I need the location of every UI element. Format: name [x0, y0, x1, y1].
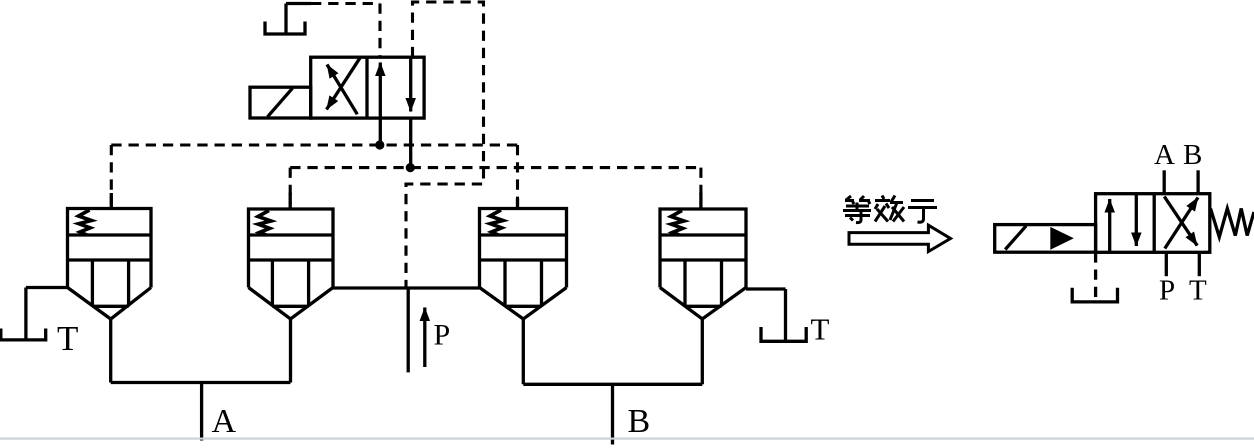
svg-text:B: B: [1183, 139, 1202, 171]
svg-text:A: A: [212, 403, 237, 440]
svg-text:B: B: [628, 403, 651, 440]
svg-text:P: P: [1159, 275, 1175, 307]
svg-text:P: P: [434, 319, 451, 352]
svg-text:T: T: [1189, 275, 1207, 307]
svg-text:A: A: [1154, 139, 1175, 171]
svg-text:T: T: [811, 312, 830, 347]
svg-text:T: T: [57, 319, 78, 358]
